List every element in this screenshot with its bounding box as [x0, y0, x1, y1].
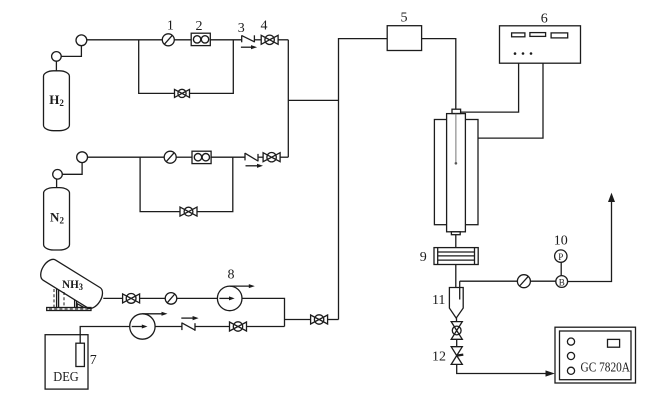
DEG pump [130, 312, 168, 339]
mass flow controller 2 [191, 33, 210, 45]
svg-text:DEG: DEG [53, 370, 79, 385]
svg-text:9: 9 [420, 250, 427, 265]
pressure regulator on N2 cylinder [53, 170, 63, 180]
N2 cylinder [44, 179, 70, 250]
wire [140, 297, 166, 299]
valve 1 circle-slash [162, 34, 174, 46]
wire merged feed line [285, 319, 311, 321]
arrow into GC [546, 370, 555, 376]
furnace outer box [434, 120, 478, 225]
wire N2 main line [88, 156, 165, 158]
wire N2 bypass return [197, 157, 233, 211]
svg-text:1: 1 [167, 19, 174, 34]
pressure gauge H2 [76, 35, 87, 46]
wire to main riser [328, 319, 339, 321]
wire regulator to gauge [61, 46, 81, 57]
svg-text:12: 12 [432, 350, 446, 365]
svg-text:4: 4 [261, 19, 268, 34]
wire [456, 339, 458, 346]
svg-text:P: P [558, 252, 563, 262]
svg-text:11: 11 [432, 293, 445, 308]
pressure gauge N2 [77, 152, 88, 163]
NH3 stand dashed braces [49, 289, 89, 309]
wire B to P [560, 262, 562, 275]
separator 11 [449, 288, 463, 319]
wire main riser x338 [339, 39, 388, 320]
N2 line circle-slash valve [164, 151, 176, 163]
wire [258, 156, 263, 158]
ball valve under separator [451, 322, 462, 340]
wire reactor to condenser [455, 235, 457, 248]
NH3 tank stand legs [57, 289, 84, 308]
wire valve4 to main riser [278, 39, 288, 41]
wire condenser to separator [455, 265, 457, 288]
wire [254, 39, 260, 41]
NH3 tank [37, 256, 106, 311]
NH3 tank stand base [47, 308, 91, 311]
N2 check valve [245, 153, 263, 168]
wire [176, 156, 192, 158]
wire NH3 outlet [103, 297, 122, 299]
pump 8 [217, 284, 254, 311]
N2 mass flow controller [192, 151, 211, 163]
reactor top cap [452, 109, 461, 113]
svg-text:3: 3 [238, 21, 245, 36]
svg-text:N2: N2 [50, 210, 64, 226]
wire controller to reactor head [460, 63, 518, 112]
merged line ball valve [311, 315, 328, 324]
wire to manifold [247, 326, 285, 328]
reactor bottom cap [451, 232, 460, 235]
DEG dip tube 7 [76, 343, 85, 366]
wire pump8 to manifold [242, 298, 285, 326]
wire DEG suction [80, 327, 130, 344]
ball valve 4 [261, 35, 278, 44]
wire [155, 326, 182, 328]
svg-text:6: 6 [541, 11, 548, 26]
svg-text:H2: H2 [49, 92, 64, 108]
GC 7820A chromatograph [555, 327, 636, 383]
NH3 circle-slash valve [165, 293, 177, 305]
condenser 9 [434, 248, 478, 265]
wire H2 bypass down [139, 40, 175, 94]
circle-slash valve on outlet [517, 275, 530, 288]
thermocouple [455, 114, 458, 165]
separator dip tube [459, 281, 461, 299]
wire N2 to riser [280, 156, 288, 158]
svg-text:7: 7 [90, 353, 97, 368]
N2 bypass ball valve [180, 207, 197, 216]
wire [174, 39, 191, 41]
svg-text:GC 7820A: GC 7820A [581, 361, 631, 376]
reactor tube [447, 114, 466, 232]
wire H2 main line [87, 39, 163, 41]
svg-text:8: 8 [228, 268, 235, 283]
svg-text:10: 10 [554, 234, 568, 249]
needle valve 12 [451, 347, 463, 365]
wire gas riser x288 [287, 40, 289, 157]
check valve 3 [241, 35, 257, 49]
H2 bypass ball valve [175, 89, 190, 97]
pressure regulator on H2 cylinder [52, 52, 62, 62]
wire [177, 297, 218, 299]
H2 cylinder [44, 61, 70, 131]
wire [211, 156, 245, 158]
mixer 5 box [387, 26, 421, 51]
wire [195, 326, 230, 328]
N2 ball valve [263, 153, 280, 162]
svg-text:2: 2 [196, 19, 203, 34]
DEG check valve [181, 316, 198, 331]
wire N2 bypass down [140, 157, 180, 211]
DEG container [45, 335, 88, 389]
wire mixer to reactor feed [422, 39, 456, 110]
wire controller to furnace [478, 63, 543, 138]
bubble flow meter B [556, 276, 568, 288]
svg-text:B: B [559, 278, 565, 288]
wire [530, 280, 555, 282]
svg-text:5: 5 [401, 10, 408, 25]
wire H2 bypass return [190, 40, 234, 94]
pressure gauge P (10) [555, 250, 567, 262]
wire separator cone to valve [456, 318, 458, 322]
wire separator gas outlet [460, 280, 518, 282]
wire regulator to gauge N2 [62, 163, 82, 175]
wire [210, 39, 241, 41]
wire to vent [568, 202, 612, 282]
temperature controller 6 box [500, 26, 581, 63]
DEG ball valve [230, 322, 247, 331]
wire jumper to main riser [288, 99, 338, 101]
NH3 ball valve [123, 294, 140, 304]
wire valve12 to GC [457, 364, 546, 373]
vent arrow [608, 193, 615, 202]
